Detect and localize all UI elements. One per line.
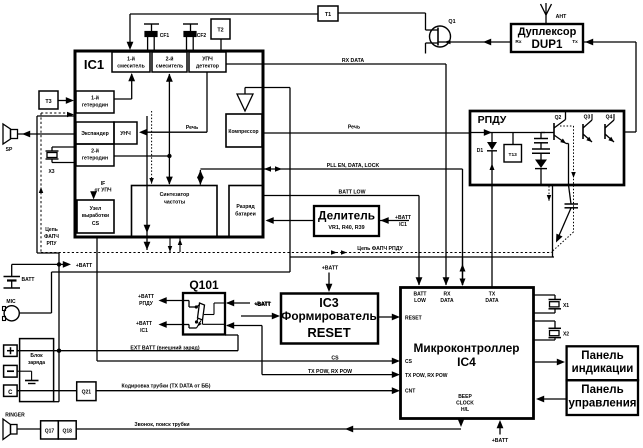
svg-text:+BATT: +BATT [492,438,509,444]
component T13 box in RPDU [512,133,514,145]
capacitor below RPDU on Q2 emitter line [569,185,572,204]
crystal X2 [534,320,556,322]
svg-text:Q4: Q4 [606,115,613,121]
reset generator block IC3 [281,294,378,344]
wire +BATT into Delitel [379,220,409,222]
svg-text:+BATT: +BATT [138,294,154,300]
svg-text:+BATT: +BATT [322,266,339,272]
svg-text:T1: T1 [325,12,331,18]
svg-text:X3: X3 [48,169,54,175]
wire RESET output to MCU [378,316,395,318]
speaker SP [3,124,11,144]
svg-text:2-й: 2-й [166,56,174,63]
transmitter block RPDU outline [470,111,624,185]
block UNCh (audio amp) inside IC1 [114,122,137,144]
varicap diode D1 in RPDU [491,133,493,143]
label +BATT with arrow [63,261,71,268]
svg-text:смеситель: смеситель [156,64,184,70]
wire +BATT feed inside IC1 down to synthesizer [146,116,148,250]
wire PLL EN DATA LOCK line [200,168,462,170]
component Q21 box [77,382,96,401]
svg-text:CS: CS [405,359,413,365]
svg-text:УНЧ: УНЧ [120,131,131,137]
dashed hooks synthesizer to FAPCh RPDU line [169,239,171,253]
wire Rech speech line into RPDU [470,132,545,134]
svg-text:DATA: DATA [440,298,454,304]
svg-text:детектор: детектор [196,64,219,70]
svg-text:T3: T3 [45,99,51,105]
svg-text:+BATT: +BATT [255,302,272,308]
svg-text:RX DATA: RX DATA [342,58,365,64]
transistor Q3 in RPDU [582,124,584,139]
svg-text:2-й: 2-й [91,148,99,155]
svg-text:CF2: CF2 [197,33,207,39]
wire junction dot on synth feed [167,154,171,158]
svg-text:Речь: Речь [348,124,360,130]
antenna symbol ANT [545,15,547,24]
svg-text:АНТ: АНТ [556,14,567,20]
svg-text:EXT BATT (внешний заряд): EXT BATT (внешний заряд) [130,345,199,352]
dotted FAPCh arrow below RPDU [548,186,550,201]
block UPCh detektor (IF detector) inside IC1 [189,52,226,72]
svg-text:РПДУ: РПДУ [139,301,154,307]
dashed FAPCh main horizontal line [41,252,551,254]
microcontroller IC4 box [401,288,534,419]
control panel Panel upravleniya [567,380,638,415]
svg-text:TX: TX [489,292,496,298]
wire T2 to IC1 top [220,39,222,50]
svg-text:Q17: Q17 [45,429,55,435]
svg-text:RX: RX [444,292,452,298]
wire +BATT supply into IC1 left [37,115,75,117]
wire DUP1 Tx from RPDU [583,41,636,43]
svg-text:BATT LOW: BATT LOW [339,190,366,196]
svg-text:IF: IF [101,181,105,187]
wire PLL double arrow synthesizer to PLL line [199,170,201,185]
transistor Q4 in RPDU [604,124,606,139]
wire TX DATA modulation into D1 from below [491,162,493,186]
transistor Q1 [430,26,451,47]
wire top line from IC1 to T1 and Q1 [130,13,318,15]
charger block Blok zaryada [20,339,54,402]
svg-text:CNT: CNT [405,389,415,395]
wire +BATT input into Q101 [227,302,250,304]
svg-text:Звонок, поиск трубки: Звонок, поиск трубки [134,421,189,428]
wire MCU beep pin down to ringer line [460,418,462,422]
wire TX DATA from MCU to RPDU D1 [491,186,493,288]
svg-text:Кодировка трубки (TX DATA от Б: Кодировка трубки (TX DATA от ББ) [121,383,210,390]
wire Rech line to UNCh with arrow [145,131,207,133]
svg-text:частоты: частоты [164,200,186,206]
indication panel Panel indikacii [567,346,638,380]
svg-text:CS: CS [331,355,339,361]
svg-text:Q18: Q18 [62,429,72,435]
capacitor stack in RPDU [540,133,542,139]
svg-text:PLL EN, DATA, LOCK: PLL EN, DATA, LOCK [327,163,380,169]
compressor amplifier triangle inside IC1 [237,94,253,111]
svg-text:T13: T13 [509,152,518,158]
wire EXT BATT external charge line [17,350,238,352]
block Uzel vyrabotki CS inside IC1 [77,200,114,233]
ceramic filter CF1 [144,23,159,25]
svg-text:УПЧ: УПЧ [202,57,213,63]
junction dot +BATT [57,262,61,266]
svg-text:от УПЧ: от УПЧ [95,188,112,194]
svg-text:CLOCK: CLOCK [456,401,474,407]
svg-text:Делитель: Делитель [318,209,375,223]
component T2 box [211,19,230,39]
wire speech bus branch double arrow to MCU [462,258,464,285]
svg-text:RESET: RESET [307,325,350,340]
wire RPDU output node down to speech bus [552,185,554,257]
svg-text:LOW: LOW [414,298,426,304]
dotted FAPCh branch to synthesizer top [151,111,153,184]
wire +BATT RPDU output of Q101 [161,300,183,302]
component T1 box [318,6,338,21]
svg-text:Панель: Панель [581,384,623,396]
terminal plus box [4,345,18,356]
wire Rech (speech) IF detector down [206,72,208,132]
svg-text:1-й: 1-й [91,95,99,102]
wire control panel to MCU [541,398,567,400]
wire BATT LOW from battery monitor to MCU [262,195,419,197]
wire expander to speaker SP [18,133,77,135]
wire +BATT vertical to charger [58,264,60,401]
terminal minus box [4,365,18,377]
wire MCU to indication panel [534,361,561,363]
crystal X1 [534,294,556,296]
svg-text:Rx: Rx [515,39,521,45]
svg-text:Блок: Блок [30,353,43,359]
svg-text:Tx: Tx [572,39,578,45]
svg-text:заряда: заряда [28,360,45,366]
wire compressor triangle output up [244,88,246,95]
svg-text:BEEP: BEEP [458,394,472,400]
svg-text:Синтезатор: Синтезатор [160,192,190,198]
wire T1 to Q1 gate [338,12,426,14]
svg-text:индикации: индикации [572,363,634,375]
wire CS from IC1 CS block to MCU [96,237,98,361]
wire speech bus from compressor node to RPDU [290,256,554,258]
svg-text:TX POW, RX POW: TX POW, RX POW [308,369,352,375]
svg-text:X2: X2 [563,332,569,338]
wire T3 to IC1 [58,100,68,102]
block Sintezator chastoty (frequency synthesizer) inside IC1 [132,186,218,237]
svg-text:D1: D1 [477,148,484,154]
svg-text:+BATT: +BATT [76,263,93,269]
svg-text:Компрессор: Компрессор [228,129,258,135]
svg-text:смеситель: смеситель [117,64,145,70]
wire TX POW RX POW to MCU [262,374,395,376]
diode under capacitors in RPDU [540,153,542,159]
svg-text:батареи: батареи [235,211,256,218]
svg-text:Формирователь: Формирователь [281,309,376,323]
svg-text:Узел: Узел [90,206,102,212]
wire DUP1 Rx to Q1 with arrow [451,41,512,43]
svg-text:1-й: 1-й [127,56,135,63]
transistor switch block Q101 [183,293,225,335]
svg-text:IC3: IC3 [319,296,339,310]
ceramic filter CF2 [183,23,198,25]
block 1-y smesitel (1st mixer) inside IC1 [112,52,150,72]
svg-text:RESET: RESET [405,316,422,322]
block Razryad batarei (battery discharge) inside IC1 [229,186,263,237]
wire 2nd LO to 2nd mixer junction [114,155,169,157]
wire MIC to compressor bus [19,312,51,314]
svg-text:Цепь: Цепь [45,227,58,233]
svg-text:T2: T2 [217,28,223,34]
transistor Q2 in RPDU [541,132,554,134]
svg-text:C: C [8,390,13,396]
wire +BATT into IC3 top [328,273,330,289]
wire +BATT into MCU bottom [499,423,501,435]
block Ekspander inside IC1 [76,122,114,144]
duplexer DUP1 box [511,24,583,52]
svg-text:Q21: Q21 [82,390,92,396]
svg-text:Цепь ФАПЧ РПДУ: Цепь ФАПЧ РПДУ [357,246,403,252]
svg-text:ФАПЧ: ФАПЧ [44,234,59,240]
svg-text:Q3: Q3 [584,115,591,121]
svg-text:CF1: CF1 [160,33,170,39]
wire Delitel output to IC1 [267,220,314,222]
svg-text:выработки: выработки [82,212,109,219]
svg-text:X1: X1 [563,303,569,309]
component Q18 box [58,421,76,439]
svg-text:VR1, R40, R39: VR1, R40, R39 [328,225,364,231]
ringer speaker symbol [11,425,18,435]
svg-text:MIC: MIC [6,299,16,305]
svg-text:IC4: IC4 [457,355,476,369]
svg-text:Разряд: Разряд [236,204,255,210]
svg-text:TX POW, RX POW: TX POW, RX POW [405,373,448,379]
divider block Delitel [314,206,379,236]
svg-text:Экспандер: Экспандер [81,131,109,137]
svg-text:CS: CS [92,221,100,227]
svg-text:Панель: Панель [581,350,623,362]
svg-text:IC1: IC1 [399,222,407,228]
crystal X3 [52,146,75,148]
wire RX DATA from IF detector to MCU [226,63,446,65]
svg-text:Q2: Q2 [555,115,562,121]
block 1-y geterodin (1st LO) inside IC1 [76,91,114,113]
svg-text:РПДУ: РПДУ [478,114,507,126]
component Q17 box [41,421,59,439]
svg-text:Q1: Q1 [448,19,455,25]
wire +BATT IC1 output of Q101 [161,324,183,326]
svg-text:РПУ: РПУ [46,241,57,247]
block 2-y smesitel (2nd mixer) inside IC1 [152,52,187,72]
wire battery to +BATT junction [12,263,59,265]
ground symbol in charger [17,370,32,372]
block 2-y geterodin (2nd LO) inside IC1 [76,144,114,166]
wire control into Q101 from TX POW line [227,325,262,327]
svg-text:BATT: BATT [22,277,35,283]
dashed arrow into IC1 left edge [41,112,68,114]
wire Rech speech from compressor to RPDU [262,132,470,134]
microphone MIC [4,306,19,321]
svg-text:Q101: Q101 [189,278,219,292]
svg-text:Дуплексор: Дуплексор [518,26,577,38]
svg-text:гетеродин: гетеродин [82,103,108,109]
svg-text:гетеродин: гетеродин [82,156,108,162]
svg-text:+BATT: +BATT [395,215,411,221]
svg-text:IC1: IC1 [140,328,148,334]
svg-text:+BATT: +BATT [136,321,152,327]
component T3 box [39,91,58,109]
wire +BATT into IC3 left [241,315,275,317]
IC IC1 outline [75,51,263,237]
svg-text:BATT: BATT [414,292,427,298]
svg-text:RINGER: RINGER [5,413,25,419]
wire 2nd mixer to synthesizer vertical [168,74,170,184]
terminal C box [4,385,18,396]
Q101 internal transistors [198,303,205,320]
block Kompressor inside IC1 [226,114,262,147]
svg-text:IC1: IC1 [84,57,104,72]
wire C terminal through Q21 to MCU CNT [17,390,77,392]
battery BATT symbol [11,264,13,276]
svg-text:DUP1: DUP1 [532,38,563,51]
svg-text:DATA: DATA [485,298,499,304]
svg-text:H/L: H/L [461,407,469,413]
wire IF arrow into CS block [93,192,95,196]
wire diagonal from capacitor to speech node with arrow [558,208,572,239]
dotted enclosure around Q2 PLL loop [560,125,574,127]
svg-text:Речь: Речь [186,125,198,131]
wire compressor line out of IC1 to MIC bus [262,87,290,89]
svg-text:Микроконтроллер: Микроконтроллер [414,341,520,355]
wire ringer line to MCU beep output [17,428,41,430]
dashed FAPCh RPU loop left side [40,113,42,253]
wire 1st LO to 1st mixer [114,98,132,100]
svg-text:управления: управления [569,398,637,410]
svg-text:SP: SP [6,147,13,153]
